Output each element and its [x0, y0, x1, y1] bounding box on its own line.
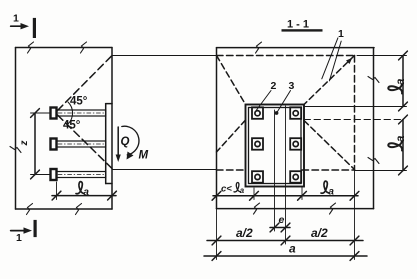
bolts (plan) 2 cols x 3 rows: [252, 107, 301, 182]
dimension e: [270, 227, 290, 229]
svg-text:e: e: [279, 214, 285, 226]
right-side vertical dimension chains: [357, 55, 407, 57]
svg-text:c<: c<: [221, 184, 232, 195]
svg-text:a: a: [289, 242, 296, 256]
moment M arc: [122, 126, 139, 155]
svg-text:a/2: a/2: [236, 226, 253, 240]
dashed diagonals: [217, 56, 246, 105]
svg-text:45°: 45°: [70, 96, 88, 108]
dimension a/2 a/2: [207, 240, 363, 242]
45 deg cone dashed rays from bolt-1 head: [58, 56, 113, 111]
section marker bottom: [11, 230, 24, 232]
dimension la (left view): [56, 182, 58, 200]
embedded plate (left view): [105, 104, 107, 184]
concrete outline (left view): [16, 47, 113, 49]
svg-text:1 - 1: 1 - 1: [287, 19, 309, 31]
transfer line bottom: [112, 169, 217, 171]
transfer line top: [112, 55, 217, 57]
anchor bolt 1: [51, 108, 106, 119]
svg-text:Q: Q: [121, 136, 130, 148]
svg-text:3: 3: [289, 80, 295, 92]
plate (plan): [246, 105, 305, 187]
centre lines for e dimension: [274, 110, 276, 231]
svg-text:z: z: [19, 141, 30, 147]
concrete outline (plan): [217, 47, 375, 49]
dimension z: [34, 113, 36, 175]
svg-text:1: 1: [16, 232, 22, 244]
anchor bolt 2: [51, 139, 106, 150]
force Q: [117, 127, 119, 157]
svg-text:M: M: [139, 150, 149, 162]
svg-text:1: 1: [13, 13, 19, 25]
svg-text:45°: 45°: [63, 120, 81, 132]
extension verticals for a dims: [216, 209, 218, 260]
svg-text:1: 1: [338, 28, 344, 40]
plate centre dot: [275, 111, 279, 115]
break marks on outline: [28, 42, 34, 53]
dashed spread (cone) boundary: [217, 55, 355, 57]
svg-text:a/2: a/2: [311, 226, 328, 240]
dimension a: [204, 255, 367, 257]
angle arc: [68, 102, 73, 124]
anchor bolt 3: [51, 169, 106, 180]
